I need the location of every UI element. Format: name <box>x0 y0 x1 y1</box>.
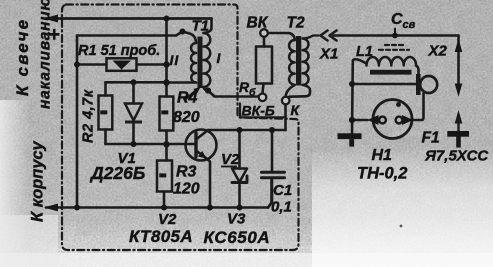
svg-text:К: К <box>291 102 301 118</box>
svg-text:Н1: Н1 <box>372 147 393 164</box>
svg-text:X2: X2 <box>428 43 448 60</box>
svg-text:накаливанию: накаливанию <box>37 0 54 109</box>
svg-text:ВК-Б: ВК-Б <box>242 103 275 119</box>
svg-text:Т2: Т2 <box>287 15 305 32</box>
svg-text:V1: V1 <box>118 150 136 167</box>
svg-text:R4: R4 <box>177 90 198 107</box>
svg-text:С: С <box>391 11 403 28</box>
svg-text:V3: V3 <box>227 211 246 228</box>
svg-text:F1: F1 <box>422 130 440 147</box>
svg-text:L1: L1 <box>356 44 373 60</box>
svg-text:X1: X1 <box>319 46 338 63</box>
svg-text:КС650А: КС650А <box>204 228 271 247</box>
svg-text:0,1: 0,1 <box>271 199 292 216</box>
svg-text:К свече: К свече <box>13 18 32 96</box>
svg-text:V2: V2 <box>221 151 240 168</box>
svg-text:ТН-0,2: ТН-0,2 <box>357 165 407 183</box>
svg-text:V2: V2 <box>158 211 177 228</box>
svg-text:120: 120 <box>173 181 200 198</box>
svg-text:Я7,5ХСС: Я7,5ХСС <box>424 148 489 165</box>
svg-text:ВК: ВК <box>247 15 269 32</box>
svg-text:R2 4,7к: R2 4,7к <box>81 89 97 143</box>
svg-text:б: б <box>249 87 256 99</box>
svg-text:II: II <box>170 52 180 68</box>
svg-text:св: св <box>403 19 416 31</box>
svg-text:К корпусу: К корпусу <box>29 141 47 222</box>
svg-text:820: 820 <box>173 109 200 126</box>
svg-text:R3: R3 <box>176 164 197 181</box>
svg-text:Т1: Т1 <box>192 18 210 35</box>
svg-text:R1 51 проб.: R1 51 проб. <box>78 43 160 59</box>
svg-text:КТ805А: КТ805А <box>129 227 193 246</box>
svg-text:C1: C1 <box>273 182 292 199</box>
